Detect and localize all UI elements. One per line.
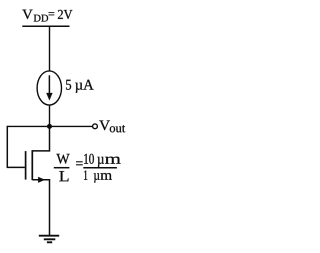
ground (39, 236, 59, 243)
wire VDD to current source (49, 26, 51, 71)
wire current source to node (49, 105, 51, 127)
terminal Vout open circle (93, 124, 98, 129)
wire gate feedback vertical (6, 126, 8, 168)
wire node to Vout (8, 125, 92, 127)
label equals (76, 162, 83, 165)
node junction dot (47, 124, 52, 129)
value label 5 uA (66, 80, 94, 93)
power rail VDD bar (22, 25, 69, 27)
label W over L fraction (54, 154, 70, 181)
label Vout (99, 121, 125, 133)
current source arrow (46, 75, 52, 100)
label VDD = 2V (22, 10, 72, 22)
transistor M1 drain lead (32, 126, 49, 151)
transistor M1 gate plate (25, 151, 27, 180)
label 10um over 1um fraction (83, 154, 120, 183)
transistor M1 source lead with arrow (32, 177, 49, 235)
current source I1 (37, 71, 61, 105)
transistor M1 channel (31, 150, 33, 180)
wire gate lead (7, 166, 25, 168)
